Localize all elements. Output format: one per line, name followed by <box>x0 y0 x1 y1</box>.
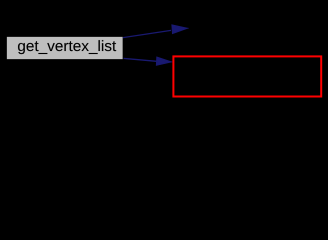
arrowhead of lower edge <box>156 57 171 65</box>
truncated callee node (red border, hidden label) <box>173 56 321 96</box>
edge wire to truncated callee node <box>124 58 157 61</box>
node get_vertex_list (current function, grey) <box>6 36 123 60</box>
wire tail at upper arrow tip <box>187 27 189 29</box>
arrowhead of upper edge <box>172 25 187 34</box>
edge wire to upper callee node <box>123 30 171 37</box>
